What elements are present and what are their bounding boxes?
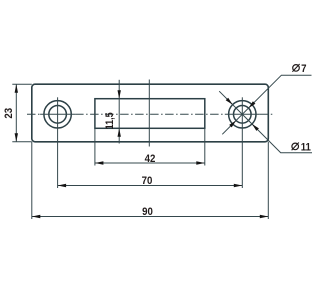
arrow 42 left [95,161,104,164]
arrow 70 right [234,184,243,187]
svg-text:11,5: 11,5 [104,112,116,129]
arrow 11.5 top [118,90,121,99]
horizontal centerline right lead-out [260,113,273,115]
dimension line 90 [32,216,268,218]
svg-text:70: 70 [142,176,153,188]
extension line bottom for dim 23 [12,141,32,143]
arrow Ø7 leader SW [229,121,236,128]
horizontal centerline solid through left hole [40,113,75,115]
left hole vertical centerline / extension for 70 [57,97,59,188]
horizontal centerline dash-dot middle span [75,113,225,115]
arrow 11.5 bottom [118,128,121,137]
svg-text:7: 7 [301,64,307,76]
leader line Ø7 through right hole [222,75,311,134]
arrow 90 left [32,215,41,218]
plate outline 90x23 [32,84,268,142]
extension line right for dim 90 [267,142,269,219]
horizontal centerline solid through right hole [225,113,260,115]
arrow Ø7 leader NE [249,101,256,108]
arrow Ø11 leader SE [252,124,259,131]
svg-text:90: 90 [142,207,153,219]
right hole inner circle Ø7 [234,106,252,124]
dimension line 11.5 [118,80,120,144]
leader line Ø11 through right hole [219,91,312,153]
right hole outer circle Ø11 [229,101,256,128]
arrow 23 bottom [15,133,18,142]
left hole inner circle Ø7 [49,106,67,124]
left hole outer circle Ø11 [44,101,71,128]
dimension line 42 [95,162,205,164]
arrow 23 top [15,84,18,93]
dimension line 23 [15,84,17,142]
slot vertical centerline [148,80,150,147]
arrow 90 right [260,215,269,218]
arrow 42 right [196,161,205,164]
right hole vertical centerline / extension for 70 [241,97,243,188]
callout symbol Ø of Ø11 [292,143,299,151]
horizontal centerline through holes (left lead-in) [27,113,40,115]
extension line right for dim 42 [204,128,206,165]
svg-text:11: 11 [301,142,311,154]
svg-text:23: 23 [4,108,16,119]
arrow Ø11 leader NW [226,98,233,105]
slot 42x11.5 [95,99,205,129]
extension line left for dim 90 [31,142,33,219]
svg-text:42: 42 [145,154,156,166]
extension line top for dim 23 [12,83,32,85]
extension line left for dim 42 [94,128,96,165]
callout symbol Ø of Ø7 [292,64,299,72]
arrow 70 left [58,184,67,187]
dimension line 70 [58,185,243,187]
